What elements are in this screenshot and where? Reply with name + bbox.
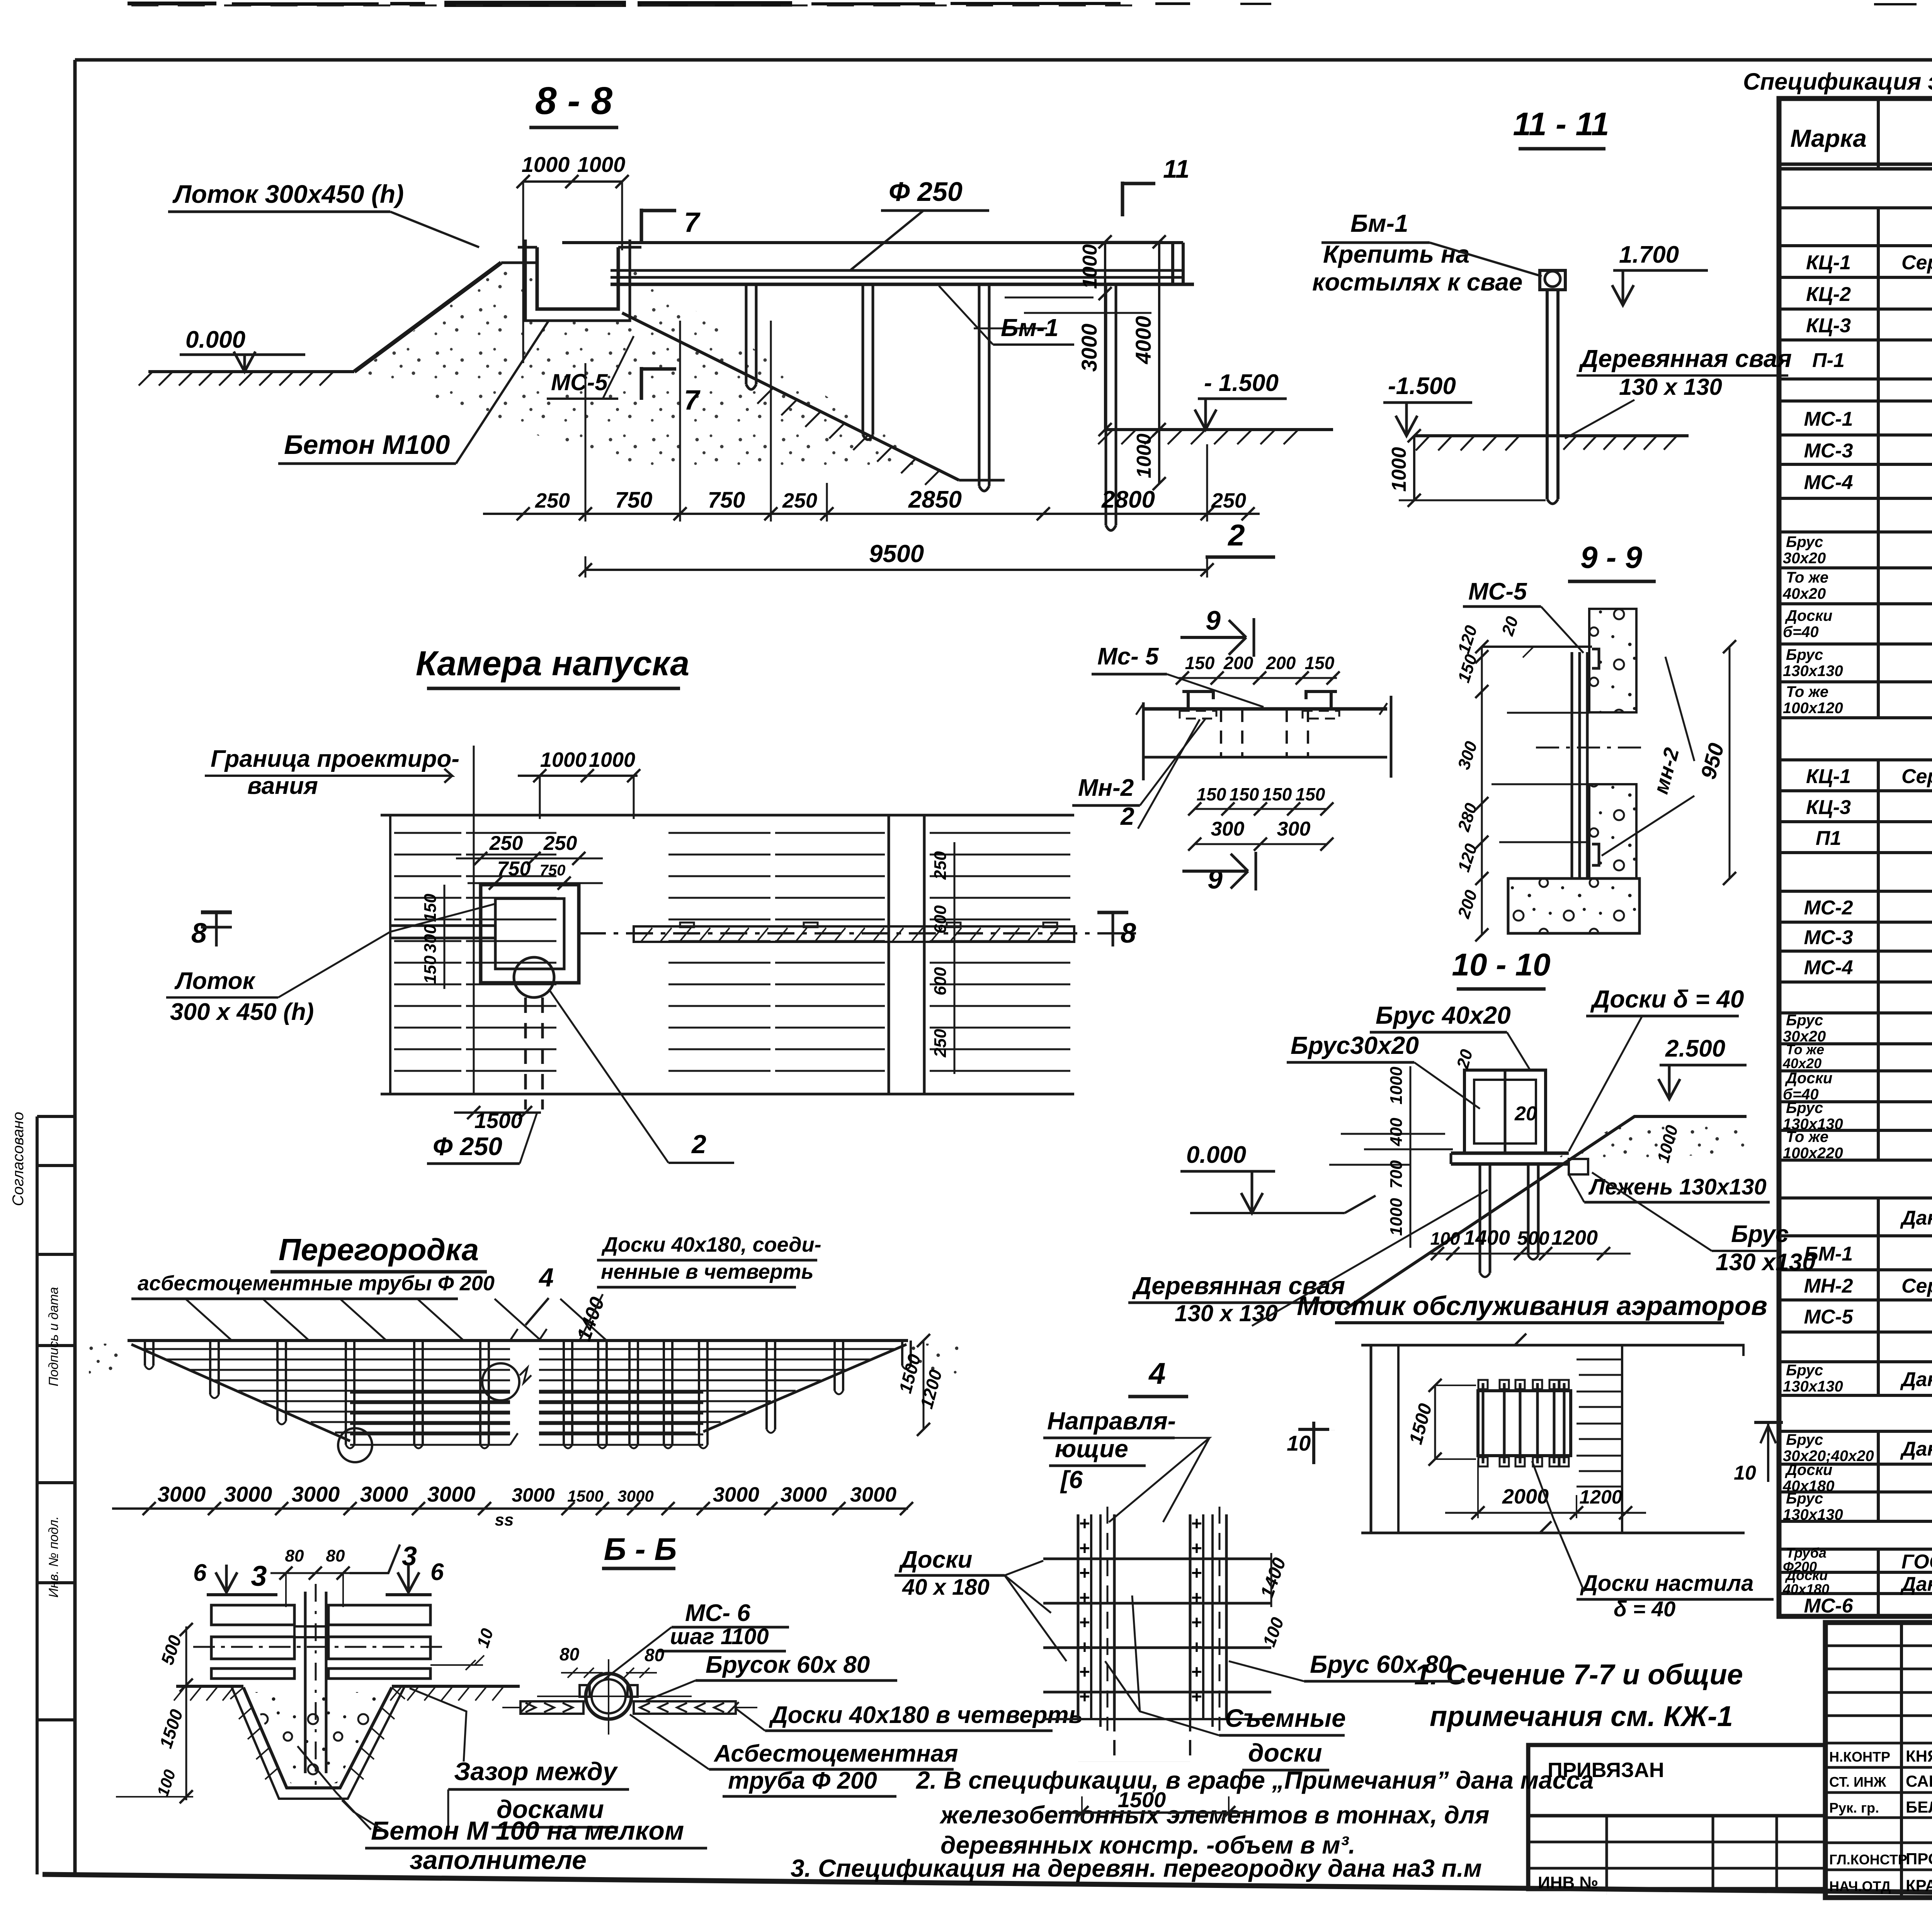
svg-text:2850: 2850 — [908, 486, 962, 513]
svg-text:300: 300 — [421, 924, 440, 953]
svg-text:МС- 6: МС- 6 — [685, 1600, 750, 1626]
svg-text:80: 80 — [560, 1644, 580, 1664]
svg-text:130х130: 130х130 — [1783, 1378, 1843, 1395]
svg-text:Ф 250: Ф 250 — [889, 177, 963, 207]
svg-text:+: + — [1191, 1538, 1202, 1559]
svg-text:МС-4: МС-4 — [1804, 471, 1853, 494]
svg-text:1000: 1000 — [1388, 447, 1410, 492]
svg-text:+: + — [1079, 1514, 1090, 1534]
svg-text:+: + — [1079, 1687, 1090, 1707]
svg-text:БЕЛОВА: БЕЛОВА — [1906, 1798, 1932, 1816]
svg-text:- 1.500: - 1.500 — [1204, 370, 1279, 396]
svg-text:Брус: Брус — [1786, 534, 1823, 551]
svg-text:7: 7 — [684, 207, 701, 238]
svg-text:750: 750 — [540, 862, 566, 879]
svg-text:10 - 10: 10 - 10 — [1452, 947, 1550, 982]
svg-text:750: 750 — [708, 488, 745, 513]
svg-text:8: 8 — [191, 918, 207, 949]
svg-text:3000: 3000 — [617, 1487, 653, 1505]
svg-text:80: 80 — [326, 1546, 345, 1565]
svg-text:20: 20 — [1514, 1103, 1537, 1125]
svg-text:9: 9 — [1207, 864, 1223, 894]
svg-text:КЦ-1: КЦ-1 — [1806, 251, 1851, 274]
svg-text:150: 150 — [421, 955, 440, 984]
svg-text:150: 150 — [1230, 784, 1259, 804]
svg-text:Доски: Доски — [1785, 1070, 1832, 1087]
svg-text:Брус: Брус — [1786, 1012, 1823, 1029]
svg-text:МС-1: МС-1 — [1804, 408, 1853, 430]
svg-text:1500: 1500 — [474, 1108, 523, 1133]
svg-text:250: 250 — [489, 832, 523, 855]
svg-text:1000: 1000 — [1079, 244, 1101, 289]
svg-text:130 х130: 130 х130 — [1716, 1249, 1816, 1276]
svg-text:Н.КОНТР: Н.КОНТР — [1829, 1749, 1890, 1765]
svg-text:Доски: Доски — [1785, 1461, 1832, 1478]
svg-text:Доски 40х180 в четверть: Доски 40х180 в четверть — [769, 1702, 1083, 1728]
svg-text:Мостик обслуживания аэраторов: Мостик обслуживания аэраторов — [1297, 1291, 1767, 1321]
svg-text:1.700: 1.700 — [1619, 241, 1679, 268]
svg-text:Брус: Брус — [1731, 1221, 1789, 1247]
svg-text:3. Спецификация на деревян.: 3. Спецификация на деревян. перегородку … — [791, 1854, 1482, 1882]
svg-text:3: 3 — [251, 1560, 267, 1592]
svg-text:Деревянная свая: Деревянная свая — [1578, 345, 1792, 372]
svg-text:6: 6 — [430, 1559, 444, 1585]
svg-text:1400: 1400 — [1464, 1226, 1510, 1249]
svg-text:Перегородка: Перегородка — [279, 1232, 479, 1267]
svg-text:750: 750 — [615, 488, 653, 513]
svg-text:МС-5: МС-5 — [1804, 1306, 1853, 1328]
svg-text:П1: П1 — [1816, 827, 1841, 850]
svg-text:ss: ss — [495, 1511, 514, 1529]
svg-text:4000: 4000 — [1131, 316, 1155, 365]
svg-text:Направля-: Направля- — [1047, 1407, 1176, 1435]
svg-text:10: 10 — [1734, 1462, 1756, 1484]
svg-text:8: 8 — [1121, 918, 1136, 949]
svg-text:костылях к сваe: костылях к сваe — [1312, 268, 1522, 296]
svg-text:250: 250 — [1211, 489, 1246, 512]
svg-text:150: 150 — [1305, 653, 1335, 673]
svg-text:То же: То же — [1786, 683, 1828, 700]
svg-text:130 х 130: 130 х 130 — [1175, 1300, 1278, 1326]
svg-text:600: 600 — [931, 967, 950, 996]
svg-text:250: 250 — [543, 832, 577, 855]
svg-text:Серия 3.900-3 Вып.1и7: Серия 3.900-3 Вып.1и7 — [1901, 251, 1932, 274]
svg-text:П-1: П-1 — [1812, 349, 1845, 372]
svg-text:2800: 2800 — [1101, 486, 1155, 513]
svg-text:+: + — [1079, 1538, 1090, 1559]
svg-text:Данный лист: Данный лист — [1900, 1573, 1932, 1595]
svg-text:ИНВ №: ИНВ № — [1538, 1873, 1598, 1892]
svg-text:150: 150 — [1296, 784, 1325, 804]
svg-text:+: + — [1079, 1662, 1090, 1682]
svg-text:ПРОНИН: ПРОНИН — [1906, 1850, 1932, 1868]
svg-text:МС-4: МС-4 — [1804, 957, 1853, 979]
svg-text:труба Ф 200: труба Ф 200 — [728, 1767, 877, 1794]
svg-text:+: + — [1191, 1563, 1202, 1584]
svg-text:Брус 40х20: Брус 40х20 — [1376, 1001, 1511, 1029]
svg-text:Мс- 5: Мс- 5 — [1097, 643, 1159, 670]
svg-text:Инв. № подл.: Инв. № подл. — [46, 1516, 61, 1598]
svg-text:400: 400 — [1387, 1118, 1406, 1147]
svg-text:КЦ-2: КЦ-2 — [1806, 283, 1851, 306]
svg-text:Брус: Брус — [1786, 1362, 1823, 1379]
svg-text:10: 10 — [1287, 1431, 1311, 1455]
svg-text:МН-2: МН-2 — [1804, 1275, 1853, 1297]
svg-text:То же: То же — [1786, 1042, 1824, 1057]
svg-text:1000: 1000 — [1133, 433, 1155, 478]
svg-text:6: 6 — [193, 1560, 207, 1586]
svg-text:МС-5: МС-5 — [551, 369, 608, 395]
svg-text:3000: 3000 — [427, 1482, 476, 1506]
svg-text:МС-3: МС-3 — [1804, 440, 1853, 462]
svg-text:Доски: Доски — [1785, 1567, 1828, 1583]
svg-text:Труба: Труба — [1786, 1545, 1827, 1561]
svg-text:Брусок 60х 80: Брусок 60х 80 — [706, 1652, 870, 1678]
svg-text:Доски настила: Доски настила — [1580, 1571, 1753, 1596]
svg-text:Марка: Марка — [1790, 124, 1867, 152]
svg-text:0.000: 0.000 — [185, 326, 245, 353]
svg-text:+: + — [1191, 1687, 1202, 1707]
svg-text:шаг 1100: шаг 1100 — [670, 1624, 769, 1649]
svg-text:МС-6: МС-6 — [1804, 1595, 1853, 1617]
svg-text:0.000: 0.000 — [1186, 1142, 1246, 1168]
svg-text:δ = 40: δ = 40 — [1614, 1597, 1675, 1621]
svg-text:Данный лист: Данный лист — [1900, 1368, 1932, 1391]
svg-text:300: 300 — [1211, 818, 1245, 840]
svg-text:САВИТСКИЙ: САВИТСКИЙ — [1906, 1772, 1932, 1790]
svg-text:НАЧ.ОТД: НАЧ.ОТД — [1829, 1878, 1891, 1894]
svg-text:примечания см. КЖ-1: примечания см. КЖ-1 — [1430, 1700, 1733, 1732]
svg-text:Согласовано: Согласовано — [10, 1112, 27, 1206]
svg-text:+: + — [1191, 1588, 1202, 1608]
svg-text:ГОСТ 539-73: ГОСТ 539-73 — [1901, 1551, 1932, 1573]
svg-text:250: 250 — [535, 489, 570, 512]
svg-text:700: 700 — [1387, 1160, 1406, 1189]
svg-text:300: 300 — [1277, 818, 1311, 840]
svg-text:80: 80 — [285, 1546, 304, 1565]
svg-text:Бм-1: Бм-1 — [1350, 209, 1408, 237]
svg-text:Доски 40х180, соеди-: Доски 40х180, соеди- — [601, 1233, 821, 1256]
svg-text:Спецификация элементов к марки: Спецификация элементов к маркировочным с… — [1743, 68, 1932, 95]
svg-text:1000: 1000 — [1387, 1067, 1406, 1104]
svg-text:3000: 3000 — [158, 1482, 206, 1506]
svg-text:2: 2 — [1227, 518, 1245, 552]
svg-text:3000: 3000 — [850, 1483, 896, 1506]
svg-text:Бм-1: Бм-1 — [1001, 314, 1059, 342]
svg-text:Брус: Брус — [1786, 1099, 1823, 1116]
svg-text:3000: 3000 — [781, 1483, 827, 1506]
svg-text:КРАСАВИН: КРАСАВИН — [1906, 1876, 1932, 1895]
svg-text:130х130: 130х130 — [1783, 1506, 1843, 1523]
svg-text:МС-2: МС-2 — [1804, 897, 1853, 919]
svg-text:Лоток 300х450 (h): Лоток 300х450 (h) — [172, 180, 404, 208]
svg-text:2: 2 — [1120, 802, 1134, 830]
svg-text:Брус30х20: Брус30х20 — [1291, 1031, 1419, 1059]
svg-text:КНЯГИНИЧЕВ: КНЯГИНИЧЕВ — [1906, 1747, 1932, 1765]
svg-text:3000: 3000 — [713, 1483, 759, 1506]
svg-text:Рук. гр.: Рук. гр. — [1829, 1800, 1879, 1816]
svg-text:Брус: Брус — [1786, 1490, 1823, 1507]
svg-text:4: 4 — [1148, 1356, 1165, 1390]
svg-text:Брус: Брус — [1786, 646, 1823, 663]
svg-text:11 - 11: 11 - 11 — [1513, 106, 1609, 142]
svg-text:3000: 3000 — [1077, 324, 1101, 372]
svg-text:40 х 180: 40 х 180 — [902, 1575, 990, 1600]
svg-text:Подпись и дата: Подпись и дата — [46, 1287, 61, 1386]
svg-text:Бетон М100: Бетон М100 — [284, 430, 450, 460]
svg-text:КЦ-3: КЦ-3 — [1806, 314, 1851, 337]
svg-text:Крепить на: Крепить на — [1323, 240, 1469, 268]
svg-text:600: 600 — [931, 905, 950, 934]
svg-text:500: 500 — [1517, 1227, 1549, 1249]
svg-text:250: 250 — [931, 1029, 950, 1058]
svg-text:1200: 1200 — [1579, 1486, 1622, 1508]
svg-text:11: 11 — [1163, 155, 1190, 183]
svg-text:200: 200 — [1223, 653, 1253, 673]
svg-text:250: 250 — [931, 851, 950, 880]
svg-text:150: 150 — [1262, 784, 1292, 804]
svg-text:асбестоцементные трубы Ф 200: асбестоцементные трубы Ф 200 — [138, 1272, 495, 1295]
svg-text:9 - 9: 9 - 9 — [1580, 540, 1643, 574]
svg-text:ненные в четверть: ненные в четверть — [601, 1260, 814, 1283]
svg-text:1000: 1000 — [540, 748, 587, 771]
svg-text:130 х 130: 130 х 130 — [1619, 374, 1722, 400]
svg-text:Граница проектиро-: Граница проектиро- — [211, 746, 459, 772]
svg-text:КЦ-1: КЦ-1 — [1806, 765, 1851, 788]
svg-text:200: 200 — [1266, 653, 1296, 673]
svg-text:+: + — [1191, 1612, 1202, 1633]
svg-text:130х130: 130х130 — [1783, 663, 1843, 680]
svg-text:МС-5: МС-5 — [1468, 578, 1527, 605]
svg-text:доски: доски — [1248, 1738, 1322, 1767]
svg-text:Серия 3.900-3 вып.1и7: Серия 3.900-3 вып.1и7 — [1901, 765, 1932, 788]
svg-text:То же: То же — [1786, 1128, 1828, 1145]
svg-text:+: + — [1079, 1563, 1090, 1584]
svg-text:3000: 3000 — [360, 1482, 408, 1506]
svg-text:Лоток: Лоток — [174, 968, 256, 994]
svg-text:750: 750 — [497, 858, 531, 880]
svg-text:Данный лист: Данный лист — [1900, 1438, 1932, 1460]
svg-text:Съемные: Съемные — [1225, 1704, 1346, 1732]
svg-text:30х20: 30х20 — [1783, 550, 1826, 567]
svg-text:3000: 3000 — [224, 1482, 272, 1506]
svg-text:7: 7 — [684, 385, 701, 416]
svg-text:Камера напуска: Камера напуска — [416, 644, 689, 683]
svg-text:заполнителе: заполнителе — [410, 1845, 587, 1875]
svg-text:Данный лист: Данный лист — [1900, 1207, 1932, 1229]
svg-text:1200: 1200 — [1551, 1226, 1598, 1249]
svg-text:8 - 8: 8 - 8 — [535, 79, 612, 122]
svg-text:100х220: 100х220 — [1783, 1145, 1843, 1162]
svg-text:железобетонных элементов в: железобетонных элементов в тоннах, для — [939, 1801, 1489, 1829]
svg-text:+: + — [1079, 1612, 1090, 1633]
svg-text:То же: То же — [1786, 569, 1828, 586]
svg-text:Доски: Доски — [898, 1546, 972, 1573]
svg-text:Б - Б: Б - Б — [604, 1532, 677, 1567]
svg-text:б=40: б=40 — [1783, 624, 1819, 641]
svg-text:Брус 60х 80: Брус 60х 80 — [1310, 1650, 1452, 1678]
svg-text:Доски: Доски — [1785, 607, 1832, 624]
svg-text:100х120: 100х120 — [1783, 700, 1843, 717]
svg-text:9500: 9500 — [869, 540, 924, 568]
svg-text:1000: 1000 — [1387, 1198, 1406, 1236]
svg-text:СТ. ИНЖ: СТ. ИНЖ — [1829, 1774, 1886, 1790]
svg-text:Асбестоцементная: Асбестоцементная — [713, 1740, 958, 1767]
svg-text:Бетон М 100 на мелком: Бетон М 100 на мелком — [371, 1816, 684, 1845]
svg-text:[6: [6 — [1060, 1466, 1083, 1494]
svg-text:40х20: 40х20 — [1782, 1055, 1821, 1071]
svg-text:1500: 1500 — [567, 1487, 603, 1505]
svg-text:9: 9 — [1206, 605, 1221, 635]
svg-text:Брус: Брус — [1786, 1431, 1823, 1448]
svg-text:-1.500: -1.500 — [1388, 373, 1456, 399]
svg-text:+: + — [1191, 1514, 1202, 1534]
svg-text:Доски δ = 40: Доски δ = 40 — [1590, 985, 1744, 1013]
svg-text:Мн-2: Мн-2 — [1078, 775, 1134, 801]
svg-text:40х20: 40х20 — [1782, 585, 1826, 602]
svg-text:80: 80 — [645, 1645, 665, 1665]
svg-text:МС-3: МС-3 — [1804, 926, 1853, 949]
svg-text:100: 100 — [1430, 1228, 1460, 1249]
svg-text:1000: 1000 — [522, 152, 570, 177]
svg-text:3000: 3000 — [292, 1482, 340, 1506]
svg-text:1000: 1000 — [577, 152, 626, 177]
svg-text:4: 4 — [538, 1263, 554, 1292]
svg-text:1500: 1500 — [1118, 1787, 1166, 1812]
svg-text:Серия 3.400-6/76: Серия 3.400-6/76 — [1901, 1275, 1932, 1297]
svg-text:+: + — [1079, 1588, 1090, 1608]
svg-text:150: 150 — [421, 894, 440, 922]
svg-text:1000: 1000 — [589, 748, 635, 771]
svg-text:Зазор между: Зазор между — [454, 1757, 618, 1786]
svg-text:300 х 450 (h): 300 х 450 (h) — [170, 999, 314, 1025]
svg-text:3000: 3000 — [512, 1484, 554, 1506]
svg-text:Ф 250: Ф 250 — [433, 1132, 502, 1160]
svg-text:250: 250 — [782, 489, 817, 512]
svg-text:150: 150 — [1185, 653, 1215, 673]
svg-text:150: 150 — [1197, 784, 1226, 804]
svg-text:1. Сечение 7-7 и общие: 1. Сечение 7-7 и общие — [1414, 1658, 1743, 1691]
svg-text:+: + — [1191, 1662, 1202, 1682]
svg-text:2: 2 — [691, 1130, 706, 1159]
svg-text:КЦ-3: КЦ-3 — [1806, 796, 1851, 819]
svg-text:ГЛ.КОНСТР: ГЛ.КОНСТР — [1829, 1852, 1907, 1867]
svg-text:2.500: 2.500 — [1665, 1035, 1725, 1062]
